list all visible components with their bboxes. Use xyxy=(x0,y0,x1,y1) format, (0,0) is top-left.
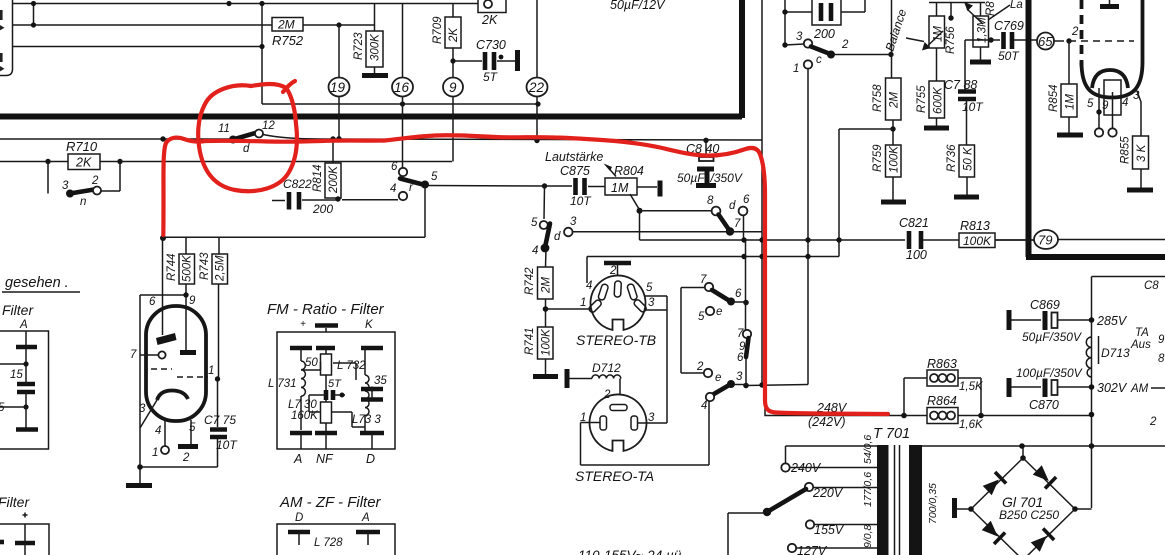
svg-text:3 K: 3 K xyxy=(1136,143,1148,162)
svg-text:5T: 5T xyxy=(483,70,499,84)
TA pin3 wire xyxy=(638,422,668,424)
wire H3 xyxy=(13,46,263,48)
resistor R723 300K xyxy=(374,4,376,75)
pin circle 9 xyxy=(443,78,463,97)
terminal T top in box xyxy=(25,331,27,364)
TB slots xyxy=(614,281,621,297)
svg-text:100µF/350V: 100µF/350V xyxy=(1016,366,1083,380)
svg-text:4: 4 xyxy=(586,280,592,292)
svg-text:C7 88: C7 88 xyxy=(944,78,977,92)
svg-text:/350V: /350V xyxy=(710,171,743,185)
FM ratio filter box xyxy=(277,332,395,449)
svg-text:2K: 2K xyxy=(75,156,92,170)
svg-text:4: 4 xyxy=(701,400,707,412)
node R814/C822 xyxy=(335,196,340,201)
socket STEREO-TB xyxy=(590,275,645,329)
groups inserted below xyxy=(0,0,742,168)
svg-text:9: 9 xyxy=(449,80,457,95)
capacitor C769 50T xyxy=(1004,32,1013,49)
TB terminal 2 xyxy=(604,261,631,266)
wire y161 xyxy=(0,161,452,163)
tap 240V xyxy=(781,463,789,471)
svg-text:R723: R723 xyxy=(353,32,365,60)
svg-text:5: 5 xyxy=(431,171,438,183)
svg-text:R813: R813 xyxy=(960,219,990,233)
svg-text:R743: R743 xyxy=(199,252,211,280)
svg-text:50: 50 xyxy=(305,357,318,369)
svg-text:6: 6 xyxy=(735,288,742,300)
svg-text:2: 2 xyxy=(182,452,190,464)
resistor R743 2,5M xyxy=(212,254,228,284)
svg-text:4: 4 xyxy=(1122,97,1128,109)
tube V701 outline xyxy=(146,306,206,421)
wire mesh inside xyxy=(301,362,365,427)
svg-text:12: 12 xyxy=(262,120,275,132)
svg-text:9: 9 xyxy=(1102,100,1109,112)
svg-text:D712: D712 xyxy=(592,361,621,375)
capacitor C775 10T xyxy=(217,379,219,467)
svg-text:+: + xyxy=(300,319,306,330)
svg-text:R758: R758 xyxy=(872,84,884,112)
switch contact 11-12 d xyxy=(229,136,237,144)
red annotation: left descender xyxy=(163,143,166,235)
svg-text:L 732: L 732 xyxy=(337,360,366,372)
svg-text:STEREO-TB: STEREO-TB xyxy=(576,332,656,348)
svg-text:7: 7 xyxy=(734,218,741,230)
module border right (thick) xyxy=(739,0,745,118)
svg-text:R814: R814 xyxy=(312,165,324,193)
svg-text:Lautstärke: Lautstärke xyxy=(545,150,603,164)
red annotation: top hook xyxy=(166,138,205,143)
switch r (6-5-4) xyxy=(399,168,407,176)
wiper node R757 xyxy=(988,37,993,42)
svg-text:1: 1 xyxy=(152,447,158,459)
cathode arc xyxy=(157,391,188,401)
svg-text:3: 3 xyxy=(648,297,655,309)
svg-text:200: 200 xyxy=(312,202,333,216)
svg-text:3: 3 xyxy=(62,180,69,192)
svg-text:100K: 100K xyxy=(541,328,553,356)
grid dashes xyxy=(151,368,172,370)
svg-text:50T: 50T xyxy=(998,49,1020,63)
svg-text:d: d xyxy=(243,143,250,155)
rectifier GL701 bridge xyxy=(971,447,1075,555)
svg-text:C875: C875 xyxy=(560,164,590,178)
svg-text:50µF: 50µF xyxy=(677,171,705,185)
pin circle 65 xyxy=(1037,33,1054,50)
TB pin3/pin5 wires xyxy=(644,296,667,423)
svg-text:35: 35 xyxy=(374,375,387,387)
wire 248V bus xyxy=(765,385,1092,416)
grid dashed wire xyxy=(1069,40,1134,42)
svg-text:22: 22 xyxy=(528,80,545,95)
svg-text:5: 5 xyxy=(189,422,196,434)
ground under R723 xyxy=(362,73,388,78)
svg-text:54/0,6: 54/0,6 xyxy=(862,435,874,464)
output module border (thick) xyxy=(1026,0,1032,257)
svg-text:R863: R863 xyxy=(927,357,957,371)
resistor R736 50K xyxy=(959,145,975,177)
svg-text:3: 3 xyxy=(570,216,577,228)
svg-text:240V: 240V xyxy=(790,461,822,475)
svg-text:4: 4 xyxy=(390,183,396,195)
pin circle 16 xyxy=(402,4,404,169)
wire H1 top xyxy=(13,3,479,5)
resistor R864 1,6K xyxy=(927,408,958,424)
svg-text:220V: 220V xyxy=(812,486,844,500)
red annotation: right descender xyxy=(760,153,777,413)
node dot R709/C730 xyxy=(450,58,455,63)
svg-text:7: 7 xyxy=(737,328,744,340)
feeder to switch contacts xyxy=(681,288,704,374)
resistor R863 1,5K xyxy=(904,378,981,416)
svg-text:2K: 2K xyxy=(481,13,498,27)
resistor R814 200K xyxy=(332,139,334,163)
svg-text:2: 2 xyxy=(841,39,849,51)
tap 127V xyxy=(788,544,796,552)
svg-text:2M: 2M xyxy=(277,18,295,32)
capacitor C870 100uF/350V xyxy=(1007,378,1012,397)
capacitor box 200 (top) xyxy=(785,0,865,45)
svg-text:1M: 1M xyxy=(933,26,945,42)
HT wire xyxy=(922,445,1165,447)
svg-text:(242V): (242V) xyxy=(808,415,846,429)
svg-text:10T: 10T xyxy=(962,100,984,114)
capacitor C788 10T xyxy=(958,92,976,100)
svg-text:1,5K: 1,5K xyxy=(959,381,984,393)
wire vertical x262 xyxy=(261,4,263,105)
HT riser x1091 xyxy=(1091,277,1093,509)
svg-text:1,6K: 1,6K xyxy=(959,419,984,431)
svg-text:c: c xyxy=(816,54,822,66)
svg-text:700/0,35: 700/0,35 xyxy=(927,483,939,524)
svg-text:5T: 5T xyxy=(328,378,342,390)
svg-text:6: 6 xyxy=(737,352,744,364)
svg-text:3: 3 xyxy=(648,412,655,424)
junction dots mid bus xyxy=(741,237,746,242)
svg-text:T 701: T 701 xyxy=(873,426,910,442)
resistor R755 600K xyxy=(929,81,945,118)
svg-text:2: 2 xyxy=(1149,416,1157,428)
ground under R759 xyxy=(881,200,906,205)
ground under R755 xyxy=(924,126,949,131)
long wire y256.5 xyxy=(587,256,839,258)
svg-text:C769: C769 xyxy=(994,19,1024,33)
tuner box corner (left edge) xyxy=(0,0,13,76)
grid pin 7 circle xyxy=(158,351,165,358)
svg-text:6: 6 xyxy=(743,194,750,206)
tuner glyph a xyxy=(0,10,5,30)
svg-text:K: K xyxy=(365,319,374,331)
svg-text:D: D xyxy=(295,512,303,524)
switch e2 (2-3-4) xyxy=(704,369,712,377)
terminal bar right of R804 xyxy=(637,186,657,188)
svg-text:C822: C822 xyxy=(283,177,312,191)
wire H4 bus xyxy=(262,103,538,105)
svg-text:e: e xyxy=(715,372,721,384)
svg-text:C821: C821 xyxy=(899,216,929,230)
resistor R744 500K xyxy=(179,254,195,284)
svg-text:2: 2 xyxy=(1071,26,1079,38)
svg-text:R709: R709 xyxy=(432,16,444,44)
svg-text:C8: C8 xyxy=(1144,280,1159,292)
ground under R854 xyxy=(1057,133,1083,138)
wire H2 xyxy=(13,24,376,26)
terminal bars bottom inside xyxy=(290,431,384,436)
svg-text:4: 4 xyxy=(532,245,538,257)
svg-text:5: 5 xyxy=(0,402,5,414)
svg-text:200K: 200K xyxy=(328,165,340,194)
svg-text:R759: R759 xyxy=(872,144,884,172)
svg-text:La: La xyxy=(1010,0,1023,11)
switch e (7-6-5) xyxy=(705,283,713,291)
svg-text:600K: 600K xyxy=(933,86,945,114)
capacitor in filter box xyxy=(17,384,35,392)
capacitor C821 100 xyxy=(909,231,921,249)
capacitor C875 10T xyxy=(428,186,605,187)
svg-text:6: 6 xyxy=(149,296,156,308)
resistor 50 xyxy=(321,354,332,375)
tuner glyph b xyxy=(0,53,5,71)
resistor R710 2K xyxy=(68,154,100,170)
svg-text:1: 1 xyxy=(208,365,214,377)
coil L731 xyxy=(300,348,302,361)
wire TB top xyxy=(586,257,588,284)
terminal bar right of C730 xyxy=(515,50,520,71)
svg-text:8: 8 xyxy=(1158,353,1165,365)
svg-text:2: 2 xyxy=(609,265,617,277)
ground under R757 xyxy=(980,47,982,60)
svg-text:R744: R744 xyxy=(166,254,178,282)
socket STEREO-TA xyxy=(590,394,647,450)
vertical x762 xyxy=(761,0,763,385)
svg-text:16: 16 xyxy=(394,80,410,95)
node dots top wires xyxy=(31,1,36,6)
svg-text:R864: R864 xyxy=(927,394,957,408)
svg-text:100: 100 xyxy=(906,248,927,262)
red annotation: horizontal run xyxy=(205,135,760,155)
svg-text:302V: 302V xyxy=(1097,381,1128,395)
svg-text:15: 15 xyxy=(10,369,23,381)
red annotation: 248V run xyxy=(776,413,888,415)
diode D2 xyxy=(1032,464,1056,488)
resistor R741 100K xyxy=(538,327,554,359)
capacitor C822 200 xyxy=(272,199,336,202)
svg-text:3: 3 xyxy=(796,31,803,43)
svg-text:5: 5 xyxy=(646,282,653,294)
svg-text:C7 75: C7 75 xyxy=(204,413,236,427)
wire y139 xyxy=(0,135,762,141)
svg-text:1M: 1M xyxy=(1065,94,1077,110)
switch n (3-2) xyxy=(48,162,120,194)
tube V702 outline xyxy=(1082,0,1143,98)
svg-text:D: D xyxy=(366,452,375,466)
svg-text:100K: 100K xyxy=(963,234,992,248)
wiper tap of R804 xyxy=(630,194,639,209)
AM ZF filter box xyxy=(277,524,395,555)
pin circle 79 xyxy=(996,239,1033,241)
svg-text:50µF/12V: 50µF/12V xyxy=(610,0,666,12)
svg-text:2,5M: 2,5M xyxy=(215,255,227,282)
svg-text:1: 1 xyxy=(580,297,586,309)
pin stems bottom xyxy=(165,420,191,446)
resistor 160K xyxy=(321,402,332,423)
resistor R813 100K xyxy=(959,233,995,248)
svg-text:A: A xyxy=(361,512,370,524)
svg-text:65: 65 xyxy=(1038,34,1053,49)
ground under R741 xyxy=(533,374,558,379)
bridge left terminal xyxy=(952,498,957,518)
svg-text:285V: 285V xyxy=(1096,314,1128,328)
svg-text:9: 9 xyxy=(1158,334,1165,346)
svg-text:Aus: Aus xyxy=(1130,339,1151,351)
svg-text:R755: R755 xyxy=(916,85,928,113)
svg-text:300K: 300K xyxy=(370,33,382,61)
svg-text:R854: R854 xyxy=(1048,85,1060,113)
svg-text:L 728: L 728 xyxy=(314,537,343,549)
svg-text:AM: AM xyxy=(1130,383,1149,395)
svg-text:2: 2 xyxy=(603,389,611,401)
svg-text:2M: 2M xyxy=(541,277,553,294)
svg-text:R741: R741 xyxy=(524,328,536,356)
svg-text:n: n xyxy=(80,196,86,208)
capacitor C730 5T xyxy=(453,60,516,62)
potentiometer R757 1,3M xyxy=(980,3,982,17)
svg-text:1,3M: 1,3M xyxy=(977,17,989,43)
resistor R752 2M xyxy=(272,18,303,32)
svg-text:Filter: Filter xyxy=(0,494,30,510)
resistor R742 2M xyxy=(538,267,554,299)
vertical x808 xyxy=(807,69,809,385)
svg-text:R752: R752 xyxy=(272,33,304,48)
svg-text:C730: C730 xyxy=(476,38,506,52)
svg-text:e: e xyxy=(716,306,722,318)
svg-text:gesehen .: gesehen . xyxy=(5,275,69,291)
svg-text:B250 C250: B250 C250 xyxy=(999,508,1059,522)
left boundary wire to ground xyxy=(140,295,218,467)
svg-text:NF: NF xyxy=(316,452,334,466)
volume node down wire xyxy=(542,183,547,188)
svg-text:R8: R8 xyxy=(985,1,997,16)
svg-text:5: 5 xyxy=(531,217,538,229)
svg-text:R742: R742 xyxy=(524,267,536,295)
node red end xyxy=(160,235,166,241)
svg-text:10T: 10T xyxy=(216,438,238,452)
ground under R736 xyxy=(954,195,979,200)
wire R743 bottom xyxy=(218,284,220,379)
anode bar V702 xyxy=(1100,4,1119,9)
svg-text:500K: 500K xyxy=(182,254,194,282)
diode D4 xyxy=(1030,528,1054,552)
svg-text:2K: 2K xyxy=(448,27,460,43)
svg-text:10T: 10T xyxy=(570,194,592,208)
svg-text:3: 3 xyxy=(736,371,743,383)
svg-text:d: d xyxy=(729,200,736,212)
tap 220V + selector lever xyxy=(805,483,813,491)
svg-text:100K: 100K xyxy=(889,145,901,173)
svg-text:2: 2 xyxy=(696,361,704,373)
red annotation: pen stub xyxy=(283,81,295,92)
ground tube xyxy=(126,483,152,488)
svg-text:FM - Ratio - Filter: FM - Ratio - Filter xyxy=(267,301,385,318)
wire y384.5 xyxy=(746,385,808,386)
resistor R759 100K xyxy=(886,145,902,177)
svg-text:177/0,6: 177/0,6 xyxy=(862,472,874,507)
svg-text:TA: TA xyxy=(1135,327,1149,339)
node A (red trace tap) xyxy=(160,136,165,141)
potentiometer R804 1M xyxy=(605,178,637,195)
switch lever 7-9-6 xyxy=(743,330,751,338)
svg-text:19: 19 xyxy=(330,80,346,95)
svg-text:9: 9 xyxy=(189,295,196,307)
ground under R855 xyxy=(1127,188,1153,193)
transformer T701 primary bar xyxy=(877,445,889,555)
wire R744 bottom to node xyxy=(140,237,186,352)
svg-text:R804: R804 xyxy=(614,164,644,178)
svg-text:110-155V~ 24 µü: 110-155V~ 24 µü xyxy=(578,548,682,555)
switch d (8-7-6) xyxy=(712,207,721,216)
terminal bars top inside xyxy=(290,346,383,351)
svg-text:2: 2 xyxy=(91,175,99,187)
heater loop V702 xyxy=(1104,80,1121,115)
module border bottom (thick) xyxy=(0,114,742,120)
svg-text:5: 5 xyxy=(698,311,705,323)
tap 155V xyxy=(806,520,814,528)
wire vertical x33 xyxy=(33,4,35,26)
wire to TB pin1 xyxy=(546,308,594,310)
svg-text:5: 5 xyxy=(1087,98,1094,110)
svg-text:Balance: Balance xyxy=(883,7,910,53)
svg-text:79: 79 xyxy=(1038,233,1052,248)
long wire y240 xyxy=(640,239,1035,241)
diode D3 xyxy=(981,520,1005,544)
svg-text:STEREO-TA: STEREO-TA xyxy=(575,468,654,484)
svg-text:R736: R736 xyxy=(946,144,958,172)
svg-text:R756: R756 xyxy=(945,26,957,54)
potentiometer R754 1M (Balance) xyxy=(929,3,985,17)
bridge right to riser xyxy=(1075,508,1092,510)
resistor R758 2M xyxy=(891,55,893,79)
svg-text:8: 8 xyxy=(707,195,714,207)
capacitor C840 50uF/350V xyxy=(705,140,707,157)
svg-text:50 K: 50 K xyxy=(963,146,975,171)
coil D713 xyxy=(1086,337,1091,377)
svg-text:L 731: L 731 xyxy=(268,378,297,390)
svg-text:1: 1 xyxy=(793,63,799,75)
svg-text:7: 7 xyxy=(700,274,707,286)
switch d (5-4) above R742 xyxy=(540,221,548,229)
svg-text:155V: 155V xyxy=(814,523,845,537)
switch c (3-2-1) xyxy=(785,44,804,45)
svg-text:AM - ZF - Filter: AM - ZF - Filter xyxy=(279,494,382,511)
svg-text:2M: 2M xyxy=(889,92,901,109)
pin circle 22 xyxy=(536,0,538,141)
svg-text:6: 6 xyxy=(391,161,398,173)
svg-text:50µF/350V: 50µF/350V xyxy=(1022,330,1082,344)
vertical x746 xyxy=(745,240,748,386)
svg-text:11: 11 xyxy=(218,123,230,135)
red annotation: loop around switch d xyxy=(198,84,297,191)
wire y230 xyxy=(573,231,762,233)
svg-text:d: d xyxy=(554,231,561,243)
resistor R854 1M xyxy=(1068,41,1070,84)
svg-text:C870: C870 xyxy=(1029,398,1059,412)
cathode bar pin9 xyxy=(180,350,196,355)
svg-text:C869: C869 xyxy=(1030,298,1060,312)
svg-text:7: 7 xyxy=(130,349,137,361)
svg-text:4: 4 xyxy=(155,425,161,437)
svg-text:A: A xyxy=(19,319,28,331)
